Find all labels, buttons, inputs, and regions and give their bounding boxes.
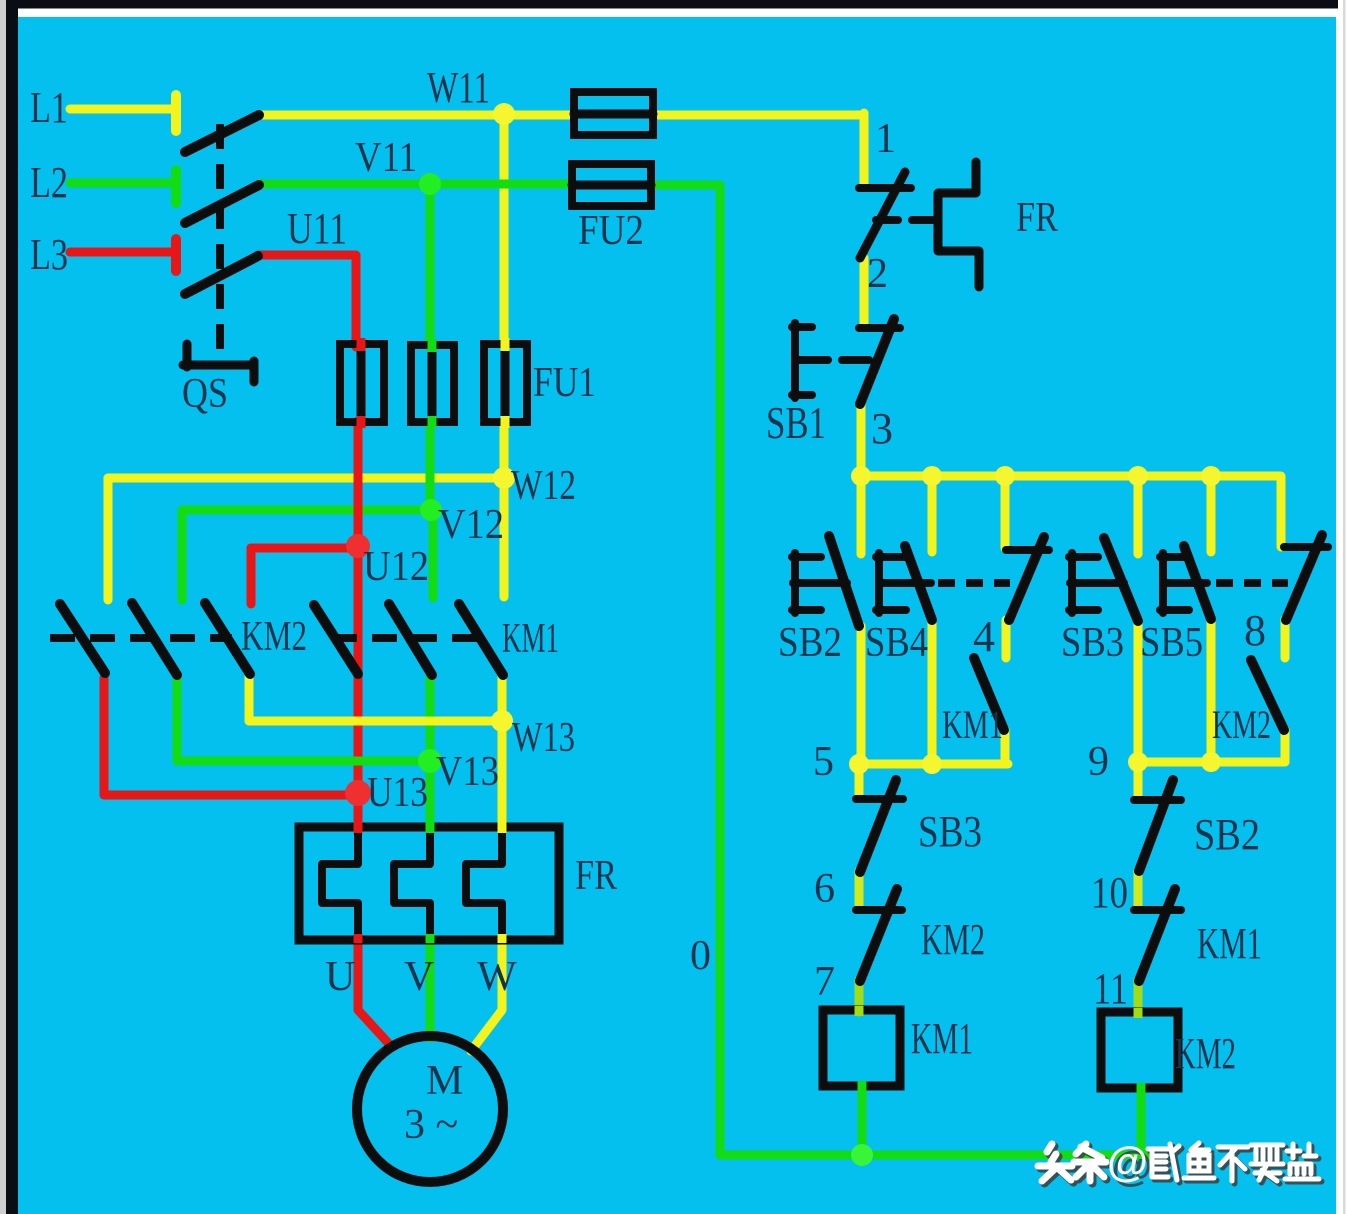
svg-text:W13: W13 xyxy=(512,715,575,761)
svg-text:5: 5 xyxy=(813,739,834,785)
pushbutton SB3 NO xyxy=(1069,538,1138,621)
wire 7 segment xyxy=(855,980,864,1012)
wire over fuse FU1 c edges xyxy=(501,338,510,428)
svg-text:V11: V11 xyxy=(355,135,417,181)
svg-text:3: 3 xyxy=(871,404,893,453)
node 5a xyxy=(849,754,869,774)
svg-text:8: 8 xyxy=(1244,606,1266,655)
wire over FR block edges U xyxy=(354,822,363,943)
wire L2 lead xyxy=(70,170,176,203)
pushbutton SB2 NO xyxy=(792,536,859,626)
contact SB4 NC (wire 8) xyxy=(1284,535,1328,620)
盐 xyxy=(1285,1144,1319,1179)
wire 0 : FU2 down to bottom bus xyxy=(651,185,720,1155)
FR NC contact xyxy=(859,172,935,258)
要 xyxy=(1254,1148,1286,1184)
svg-text:V13: V13 xyxy=(436,749,499,795)
switch QS handle xyxy=(183,344,254,382)
node 9b xyxy=(1201,752,1221,772)
wire 11 segment xyxy=(1134,980,1143,1013)
wire SB5 branch xyxy=(1207,476,1216,762)
wire over KM1 coil edges xyxy=(855,1006,864,1016)
node 3d xyxy=(1128,466,1148,486)
svg-text:SB3: SB3 xyxy=(918,807,982,856)
switch QS blade 2 xyxy=(185,185,259,223)
svg-text:QS: QS xyxy=(182,371,228,417)
node V12 xyxy=(420,499,442,521)
盐 xyxy=(1288,1147,1322,1182)
wire U13 to FR heater xyxy=(354,793,363,830)
contact KM2 interlock NC xyxy=(856,889,902,981)
motor M circle xyxy=(357,1036,503,1182)
svg-text:@: @ xyxy=(1107,1138,1148,1185)
头 xyxy=(1041,1147,1075,1184)
pushbutton SB1 NC xyxy=(792,319,900,404)
coil KM2 xyxy=(1101,1012,1178,1088)
switch QS linkage dashed xyxy=(216,124,224,358)
svg-text:SB1: SB1 xyxy=(766,397,826,448)
wire over FR block edges W xyxy=(498,822,507,943)
wire 10 segment xyxy=(1134,871,1143,908)
node 3b xyxy=(922,466,942,486)
svg-text:SB2: SB2 xyxy=(778,620,842,666)
wire control bus node 3 xyxy=(861,476,1281,547)
wire SB2 branch xyxy=(857,476,866,764)
svg-text:2: 2 xyxy=(867,251,888,297)
wire U12-U13 main red vertical xyxy=(354,546,363,793)
wire 3 : SB1 to bus xyxy=(857,404,866,476)
svg-text:FR: FR xyxy=(1016,195,1058,241)
svg-text:KM1: KM1 xyxy=(911,1014,973,1063)
svg-text:3 ~: 3 ~ xyxy=(404,1102,458,1148)
node V13 xyxy=(418,749,442,773)
node U13 xyxy=(345,780,371,806)
头 xyxy=(1038,1144,1072,1181)
node W13 xyxy=(491,710,513,732)
wire 1 : FR contact to SB1 xyxy=(860,258,869,326)
svg-text:FR: FR xyxy=(575,853,617,899)
node 0 bottom bus xyxy=(851,1144,873,1166)
svg-text:W11: W11 xyxy=(427,63,490,112)
svg-text:SB2: SB2 xyxy=(1194,810,1260,859)
fuse FU2 b xyxy=(572,164,651,206)
linkage SB4 dashed xyxy=(938,579,1010,587)
outer gray strip left xyxy=(0,0,6,1214)
contact KM1 aux NO xyxy=(974,658,1004,730)
wire W12 : fuse3 to KM contacts xyxy=(108,421,504,600)
svg-text:V12: V12 xyxy=(438,502,504,548)
svg-text:KM1: KM1 xyxy=(502,616,559,662)
svg-text:L1: L1 xyxy=(30,83,68,132)
switch QS blade 1 xyxy=(185,115,259,152)
fuse FU1 c xyxy=(484,344,527,422)
wire SB4 branch xyxy=(928,476,937,764)
contactor KM2 main blade 3 xyxy=(205,603,250,674)
contact KM2 aux NO xyxy=(1251,660,1284,730)
svg-text:6: 6 xyxy=(814,866,835,912)
node 5b xyxy=(922,754,942,774)
svg-text:SB5: SB5 xyxy=(1140,620,1203,666)
svg-text:1: 1 xyxy=(875,116,896,162)
wire KM2 phase swap red to U13 xyxy=(104,678,358,795)
svg-text:M: M xyxy=(426,1058,463,1104)
thermal relay FR block xyxy=(299,827,559,940)
wire V11 : QS to node and FU2 xyxy=(259,184,573,347)
要 xyxy=(1251,1145,1283,1181)
contactor KM1 main blade 2 xyxy=(389,604,432,675)
pushbutton SB5 NO xyxy=(1160,546,1211,619)
svg-text:9: 9 xyxy=(1088,739,1109,785)
wire W11 vertical to FU1 fuse 3 xyxy=(500,115,509,346)
svg-text:KM2: KM2 xyxy=(1175,1029,1236,1078)
fuse FU1 b xyxy=(411,345,454,422)
wire V12 : fuse2 to KM contacts xyxy=(182,421,433,600)
left black border bar xyxy=(6,0,18,1214)
contact KM1 interlock NC xyxy=(1134,889,1181,981)
wire node 9 row xyxy=(1138,758,1285,767)
wire over fuse FU1 b edges xyxy=(428,339,437,427)
条 xyxy=(1074,1144,1106,1181)
svg-text:SB3: SB3 xyxy=(1061,620,1124,666)
node W12 xyxy=(493,467,515,489)
pushbutton SB4 NO xyxy=(876,546,932,620)
wire over FR block edges V xyxy=(426,822,435,943)
right edge gray line xyxy=(1343,0,1346,1214)
svg-text:FU2: FU2 xyxy=(578,208,644,254)
鱼 xyxy=(1184,1143,1214,1178)
linkage KM1 dashed xyxy=(332,634,492,642)
wire 6 segment xyxy=(855,871,864,908)
svg-text:U: U xyxy=(325,954,355,1000)
wire node 5 row xyxy=(859,760,1008,769)
wire over KM2 coil edges xyxy=(1134,1008,1143,1018)
switch QS blade 3 xyxy=(185,256,258,294)
contactor KM1 main blade 3 xyxy=(459,604,503,675)
svg-text:0: 0 xyxy=(690,933,711,979)
咸 xyxy=(1151,1147,1182,1183)
wire V13 green below KM contacts xyxy=(177,677,430,830)
fuse FU1 a xyxy=(340,344,384,422)
contactor KM2 main blade 2 xyxy=(132,603,177,675)
wire over fuse FU1 a edges xyxy=(357,338,366,428)
svg-text:7: 7 xyxy=(814,959,835,1005)
svg-text:U11: U11 xyxy=(287,204,347,253)
linkage KM2 dashed xyxy=(50,634,232,642)
FR heater phase W xyxy=(466,829,502,938)
FR heater phase V xyxy=(394,829,430,938)
svg-text:U12: U12 xyxy=(363,544,429,590)
条 xyxy=(1077,1147,1109,1184)
svg-text:KM2: KM2 xyxy=(1212,702,1271,747)
wire KM1 coil to bottom bus xyxy=(858,1086,867,1155)
wire U12 : fuse1 to KM1 and KM2 contacts xyxy=(251,421,358,604)
wire motor lead V xyxy=(426,937,435,1038)
wire bottom bus 0 xyxy=(720,1151,1148,1160)
不 xyxy=(1221,1150,1251,1184)
wire 5-6 segment xyxy=(855,764,864,798)
svg-text:L2: L2 xyxy=(30,158,68,207)
svg-text:SB4: SB4 xyxy=(865,620,928,666)
wire L3 lead xyxy=(70,239,176,271)
svg-text:10: 10 xyxy=(1091,868,1128,917)
node V11 xyxy=(419,173,441,195)
coil KM1 xyxy=(823,1010,900,1086)
svg-text:FU1: FU1 xyxy=(533,360,596,406)
svg-text:W: W xyxy=(477,954,517,1000)
svg-text:KM1: KM1 xyxy=(942,702,1003,747)
wire SB3 branch xyxy=(1134,476,1143,762)
svg-text:KM2: KM2 xyxy=(241,614,307,660)
wire W13 yellow below KM contacts xyxy=(249,677,502,830)
svg-text:W12: W12 xyxy=(511,463,576,509)
node U12 xyxy=(346,534,370,558)
wire motor lead U xyxy=(358,937,390,1045)
linkage SB5 dashed xyxy=(1216,579,1288,587)
node 3c xyxy=(995,466,1015,486)
鱼 xyxy=(1187,1146,1217,1181)
contact SB3 NC in KM1 coil branch xyxy=(856,780,903,872)
watermark toutiao xyxy=(1038,1138,1322,1190)
svg-text:KM2: KM2 xyxy=(921,915,985,964)
contactor KM2 main blade 1 xyxy=(60,604,105,673)
fuse FU2 a xyxy=(574,92,653,135)
svg-text:L3: L3 xyxy=(30,230,68,279)
node 3e xyxy=(1201,466,1221,486)
wire KM2 coil to bottom bus xyxy=(1137,1088,1146,1155)
wire U11 : QS to fuse1 xyxy=(258,255,356,347)
contact SB2 NC in KM2 coil branch xyxy=(1134,780,1181,871)
wire 4 branch KM1 aux xyxy=(1005,476,1006,764)
不 xyxy=(1218,1147,1248,1181)
wire L1 lead xyxy=(70,95,176,131)
node 9a xyxy=(1128,752,1148,772)
FR heater element symbol xyxy=(938,162,979,287)
wire W11 : QS to FU2 and down to control xyxy=(259,113,864,184)
wire motor lead W xyxy=(471,937,502,1051)
svg-text:4: 4 xyxy=(973,612,995,661)
svg-text:V: V xyxy=(404,954,434,1000)
svg-text:U13: U13 xyxy=(367,770,428,816)
top black title bar xyxy=(6,0,1338,9)
wire 8 branch KM2 aux xyxy=(1281,619,1290,762)
咸 xyxy=(1148,1144,1179,1180)
svg-text:KM1: KM1 xyxy=(1197,919,1262,968)
node W11 xyxy=(493,103,515,125)
contact SB5 NC (wire 4) xyxy=(1006,537,1049,620)
contactor KM1 main blade 1 xyxy=(314,605,358,674)
svg-text:11: 11 xyxy=(1093,964,1128,1013)
wire 9-10 segment xyxy=(1134,762,1143,795)
node 3a xyxy=(851,466,871,486)
FR heater phase U xyxy=(322,829,358,938)
